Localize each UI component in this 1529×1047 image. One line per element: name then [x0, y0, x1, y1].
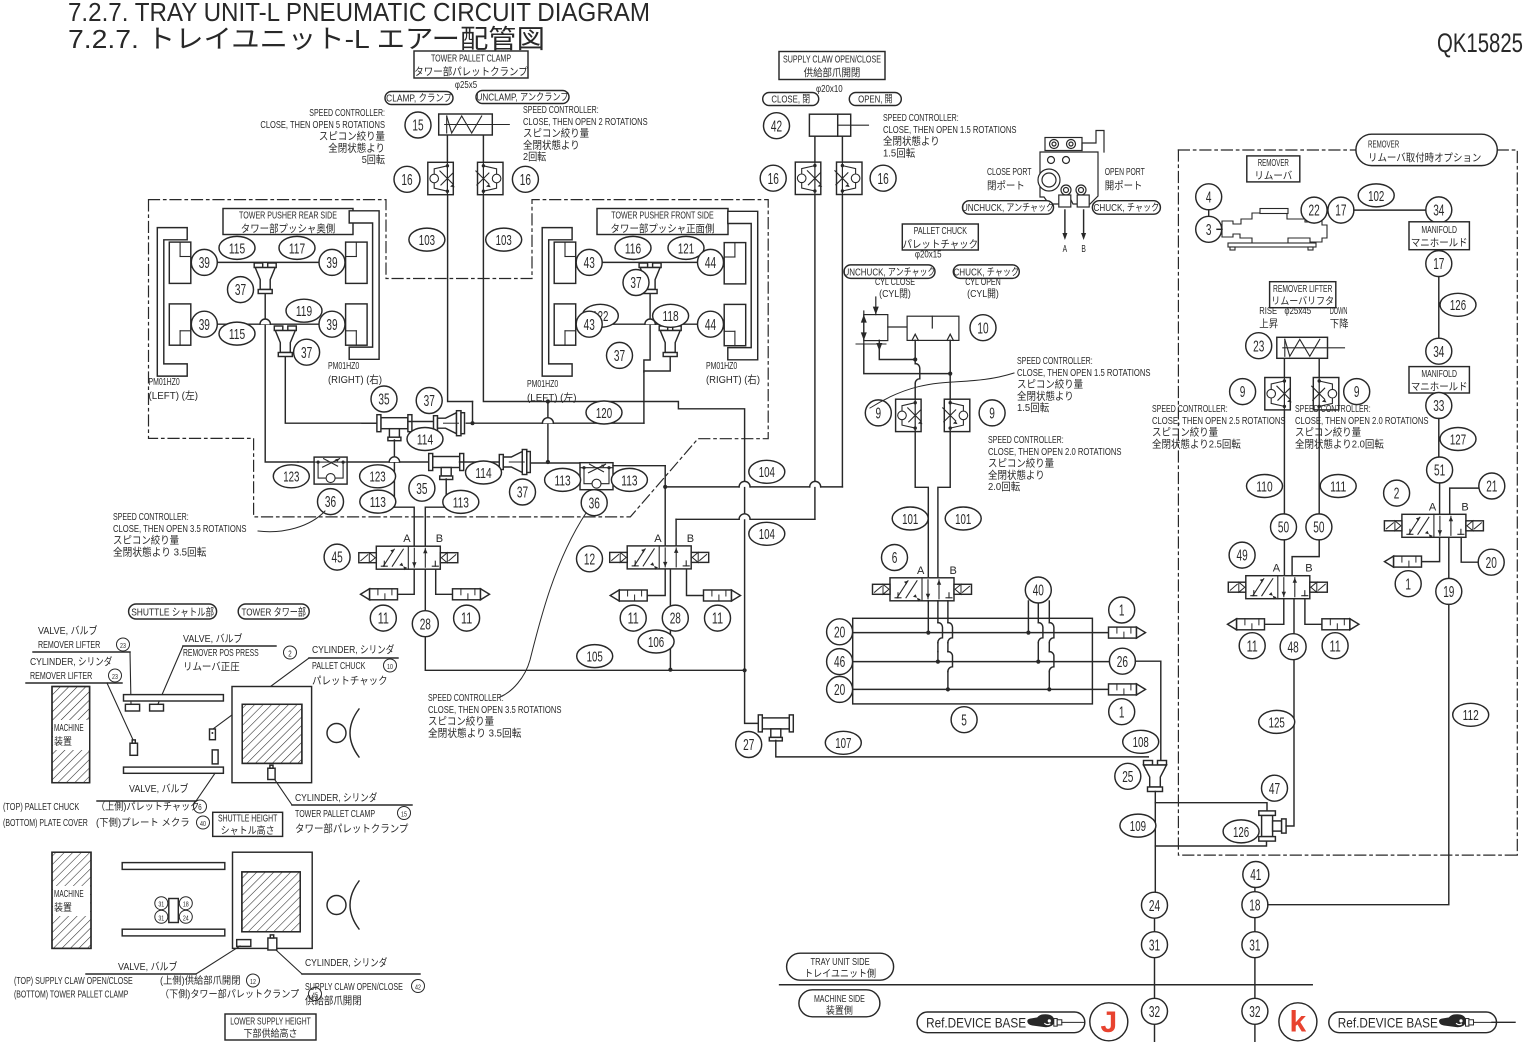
leader 36 left: [258, 511, 325, 532]
svg-text:104: 104: [759, 464, 775, 481]
Y fitting 37 front lower: [659, 326, 668, 331]
wire front lower Y stem: [644, 357, 670, 423]
label stadium TOWER: [238, 604, 309, 619]
wire cross link vertical: [547, 402, 549, 463]
speed controller 9 lifter left: [1265, 378, 1291, 410]
balloon 34 second: [1426, 338, 1452, 364]
svg-text:SPEED CONTROLLER:: SPEED CONTROLLER:: [883, 112, 959, 124]
svg-text:A: A: [654, 533, 662, 545]
balloon 114 upper: [407, 428, 443, 451]
svg-text:18: 18: [1249, 897, 1260, 914]
balloon 116: [615, 236, 651, 259]
balloon 123 right: [360, 465, 396, 488]
svg-text:TOWER PUSHER FRONT SIDE: TOWER PUSHER FRONT SIDE: [611, 210, 713, 222]
balloon 47: [1262, 775, 1288, 801]
balloon 1 valve2: [1395, 571, 1421, 597]
label box LOWER SUPPLY HEIGHT: [225, 1014, 316, 1040]
label box TOWER PUSHER FRONT SIDE: [597, 209, 728, 235]
speed controller 16 left: [428, 162, 454, 194]
svg-text:23: 23: [120, 643, 126, 650]
svg-text:9: 9: [989, 405, 995, 422]
balloon 115 top: [219, 236, 255, 259]
svg-text:32: 32: [1149, 1004, 1160, 1021]
svg-text:2回転: 2回転: [523, 151, 547, 163]
svg-text:(BOTTOM) PLATE COVER: (BOTTOM) PLATE COVER: [3, 818, 88, 829]
Y fitting 37 front upper: [639, 263, 648, 268]
svg-text:112: 112: [1463, 707, 1479, 724]
balloon 2: [1384, 480, 1410, 506]
svg-text:114: 114: [417, 431, 433, 448]
separator line tray/machine: [780, 984, 1313, 986]
balloon 21: [1479, 473, 1505, 499]
svg-text:REMOVER POS PRESS: REMOVER POS PRESS: [183, 647, 259, 659]
port arrow B: [1083, 210, 1085, 235]
svg-text:リムーバ: リムーバ: [1254, 170, 1292, 182]
svg-text:全閉状態より 3.5回転: 全閉状態より 3.5回転: [428, 726, 522, 739]
balloon 3: [1196, 216, 1222, 242]
svg-text:SPEED CONTROLLER:: SPEED CONTROLLER:: [1152, 403, 1228, 415]
svg-text:48: 48: [1288, 639, 1299, 656]
svg-text:全閉状態より: 全閉状態より: [328, 141, 385, 154]
svg-text:4: 4: [1206, 189, 1212, 206]
svg-text:9: 9: [1354, 384, 1360, 401]
svg-text:5: 5: [961, 712, 967, 729]
balloon 11 12-right: [705, 605, 731, 631]
svg-text:UNCLAMP, アンクランプ: UNCLAMP, アンクランプ: [476, 92, 568, 104]
svg-text:TOWER PALLET CLAMP: TOWER PALLET CLAMP: [431, 53, 511, 65]
balloon 120: [586, 401, 622, 424]
balloon 31 left: [1142, 932, 1168, 958]
svg-text:UNCHUCK, アンチャック: UNCHUCK, アンチャック: [962, 202, 1054, 214]
svg-text:装置側: 装置側: [826, 1004, 853, 1017]
wire 107: [776, 741, 1149, 757]
svg-text:k: k: [1290, 1006, 1307, 1039]
balloon 20 row3: [827, 676, 853, 702]
balloon 107: [825, 731, 861, 754]
svg-text:108: 108: [1133, 734, 1149, 751]
balloon 49: [1229, 542, 1255, 568]
svg-text:B: B: [1461, 501, 1468, 513]
wire pallet chuck A line: [914, 340, 916, 363]
svg-text:17: 17: [1433, 256, 1444, 273]
svg-text:全閉状態より2.5回転: 全閉状態より2.5回転: [1152, 437, 1241, 450]
label box REMOVER LIFTER: [1270, 282, 1336, 308]
cylinder assembly PM01HZ0 right rear: [349, 211, 379, 359]
balloon 101 left: [892, 507, 928, 530]
svg-text:REMOVER LIFTER: REMOVER LIFTER: [1273, 284, 1332, 295]
label box MANIFOLD second: [1409, 367, 1469, 393]
svg-text:11: 11: [712, 611, 723, 628]
svg-text:37: 37: [235, 282, 246, 299]
svg-text:CYLINDER, シリンダ: CYLINDER, シリンダ: [305, 956, 388, 969]
speed controller 16 claw right: [837, 162, 863, 194]
svg-text:スピコン絞り量: スピコン絞り量: [319, 130, 386, 143]
svg-text:26: 26: [1117, 654, 1128, 671]
balloon 104 first: [749, 460, 785, 483]
svg-text:7.2.7. TRAY UNIT-L PNEUMATIC: 7.2.7. TRAY UNIT-L PNEUMATIC CIRCUIT DIA…: [68, 0, 650, 27]
svg-text:34: 34: [1433, 344, 1444, 361]
svg-text:CLOSE, THEN OPEN 1.5 ROTATIONS: CLOSE, THEN OPEN 1.5 ROTATIONS: [883, 124, 1017, 136]
valve 10 main block: [907, 316, 959, 340]
valve 10 pilot block: [856, 297, 907, 351]
svg-text:10: 10: [387, 664, 393, 671]
state label CHUCK cyl: [953, 265, 1019, 279]
balloon 115 bottom: [219, 322, 255, 345]
wire 24 column: [1154, 918, 1156, 932]
shuttle rail upper bottom bar: [124, 767, 224, 773]
svg-text:123: 123: [370, 469, 386, 486]
svg-text:CLOSE PORT: CLOSE PORT: [987, 166, 1032, 178]
svg-text:VALVE, バルブ: VALVE, バルブ: [118, 960, 178, 973]
balloon 40: [1025, 577, 1051, 603]
svg-text:51: 51: [1434, 463, 1445, 480]
balloon 50 left: [1271, 514, 1297, 540]
svg-text:31: 31: [1149, 937, 1160, 954]
svg-text:3: 3: [1206, 222, 1212, 239]
svg-text:全閉状態より 3.5回転: 全閉状態より 3.5回転: [113, 545, 207, 558]
wire pallet chuck B line: [949, 340, 951, 399]
svg-text:1: 1: [1119, 704, 1125, 721]
svg-text:OPEN, 開: OPEN, 開: [858, 94, 892, 106]
balloon 16 claw right: [870, 165, 896, 191]
svg-text:シャトル高さ: シャトル高さ: [221, 824, 275, 837]
silencer valve 12 left: [619, 590, 647, 601]
svg-text:120: 120: [596, 405, 612, 422]
svg-text:全閉状態より: 全閉状態より: [523, 138, 580, 151]
balloon 39 rear LT: [191, 249, 217, 275]
svg-text:110: 110: [1256, 478, 1272, 495]
wire 104 riser right: [841, 194, 843, 487]
svg-text:126: 126: [1233, 824, 1249, 841]
svg-text:(上側)供給部爪開閉: (上側)供給部爪開閉: [160, 974, 241, 987]
balloon 118: [653, 304, 689, 327]
wire long distribution upper: [466, 422, 644, 424]
svg-text:40: 40: [1033, 583, 1044, 600]
svg-text:24: 24: [183, 915, 189, 922]
silencer valve 45 right: [453, 589, 481, 600]
svg-text:CLOSE, THEN OPEN 1.5 ROTATIONS: CLOSE, THEN OPEN 1.5 ROTATIONS: [1017, 367, 1151, 379]
silencer 49 right: [1322, 619, 1350, 630]
shuttle rail upper top bar: [124, 695, 224, 701]
svg-text:SPEED CONTROLLER:: SPEED CONTROLLER:: [113, 511, 189, 523]
balloon 23: [1246, 333, 1272, 359]
balloon 127: [1440, 428, 1476, 451]
svg-text:Ref.DEVICE BASE: Ref.DEVICE BASE: [1338, 1015, 1438, 1031]
wire valve 45 A: [413, 545, 415, 547]
wire 51 to valve 2: [1439, 483, 1441, 514]
balloon 9 chuck right: [979, 400, 1005, 426]
svg-text:16: 16: [878, 171, 889, 188]
balloon 20 row1: [827, 619, 853, 645]
svg-text:107: 107: [835, 735, 851, 752]
label box SHUTTLE HEIGHT: [213, 812, 283, 836]
svg-text:REMOVER LIFTER: REMOVER LIFTER: [38, 639, 101, 651]
svg-text:SUPPLY CLAW OPEN/CLOSE: SUPPLY CLAW OPEN/CLOSE: [783, 54, 881, 66]
speed controller 16 claw left: [795, 162, 821, 194]
valve remover pos press block: [150, 704, 164, 711]
svg-text:18: 18: [183, 902, 189, 909]
svg-text:MANIFOLD: MANIFOLD: [1421, 368, 1457, 380]
balloon 103 right: [486, 228, 522, 251]
port arrow A: [1064, 210, 1066, 235]
balloon 48: [1280, 634, 1306, 660]
svg-text:50: 50: [1313, 519, 1324, 536]
svg-text:45: 45: [312, 993, 318, 1000]
svg-text:16: 16: [520, 172, 531, 189]
balloon 28 12: [662, 605, 688, 631]
speed controller 16 right: [478, 162, 504, 194]
balloon 11 45-right: [454, 605, 480, 631]
svg-text:37: 37: [614, 348, 625, 365]
wire 40 stubs: [1027, 601, 1029, 633]
svg-text:LOWER SUPPLY HEIGHT: LOWER SUPPLY HEIGHT: [230, 1016, 311, 1027]
svg-text:CYL OPEN: CYL OPEN: [965, 276, 1001, 288]
wire rear bottom rods: [204, 323, 333, 325]
balloon 32 left: [1142, 998, 1168, 1024]
label Ref.DEVICE BASE k: [1329, 1012, 1497, 1033]
balloon 36 right: [581, 490, 607, 516]
svg-text:(TOP) SUPPLY CLAW OPEN/CLOSE: (TOP) SUPPLY CLAW OPEN/CLOSE: [14, 976, 133, 987]
svg-text:下降: 下降: [1330, 317, 1349, 330]
svg-text:スピコン絞り量: スピコン絞り量: [988, 457, 1055, 470]
balloon 18: [1242, 892, 1268, 918]
svg-text:全閉状態より2.0回転: 全閉状態より2.0回転: [1295, 437, 1384, 450]
silencer bus top: [1109, 627, 1137, 638]
svg-text:リムーバ取付時オプション: リムーバ取付時オプション: [1368, 151, 1481, 164]
cylinder assembly PM01HZ0 left front: [542, 228, 572, 377]
svg-text:φ25x45: φ25x45: [1284, 305, 1311, 317]
svg-text:PALLET CHUCK: PALLET CHUCK: [312, 660, 365, 672]
wire Y mid lower to ctrl 113: [531, 462, 581, 464]
svg-text:121: 121: [678, 240, 694, 257]
tee fitting upper: [362, 422, 381, 424]
svg-text:109: 109: [1130, 818, 1146, 835]
balloon 113 ctrl right: [611, 468, 647, 491]
svg-text:φ20x15: φ20x15: [915, 249, 942, 261]
speed controller 9 chuck right: [944, 399, 970, 431]
balloon 25: [1115, 763, 1141, 789]
wire ctrl113 to valve 12 A: [613, 465, 665, 467]
balloon 9 lifter left: [1230, 379, 1256, 405]
svg-text:PALLET CHUCK: PALLET CHUCK: [914, 225, 967, 237]
svg-text:31: 31: [158, 915, 164, 922]
svg-text:スピコン絞り量: スピコン絞り量: [1295, 426, 1362, 439]
balloon 16 claw left: [760, 165, 786, 191]
svg-text:B: B: [1305, 563, 1312, 575]
balloon 113 ctrl left: [545, 468, 581, 491]
svg-text:PM01HZ0: PM01HZ0: [328, 360, 359, 372]
svg-text:116: 116: [625, 240, 641, 257]
wire supply claw cylinder ports: [814, 136, 816, 163]
svg-text:32: 32: [1249, 1004, 1260, 1021]
balloon 51: [1427, 457, 1453, 483]
balloon 112: [1453, 703, 1489, 726]
wire valve 12 exhaust right: [687, 569, 704, 595]
wire valve 12 P down: [669, 569, 671, 669]
svg-text:39: 39: [326, 317, 337, 334]
label box REMOVER: [1247, 156, 1300, 182]
balloon 122: [582, 304, 618, 327]
speed controller 9 chuck left: [896, 399, 922, 431]
svg-text:27: 27: [743, 737, 754, 754]
svg-text:（下側)タワー部パレットクランプ: （下側)タワー部パレットクランプ: [160, 988, 299, 1001]
wire lifter A down: [1283, 410, 1285, 576]
svg-text:118: 118: [663, 308, 679, 325]
svg-text:全閉状態より: 全閉状態より: [988, 468, 1045, 481]
wire 18 to 112 line: [1268, 536, 1449, 905]
balloon 39 rear RB: [319, 311, 345, 337]
wire 127 line: [1438, 419, 1440, 458]
svg-text:15: 15: [401, 812, 407, 819]
label Ref.DEVICE BASE J: [917, 1012, 1085, 1033]
svg-text:113: 113: [370, 494, 386, 511]
bus row 20 top: [853, 632, 1109, 634]
svg-text:105: 105: [587, 649, 603, 666]
balloon 37 rear lower: [294, 339, 320, 365]
svg-text:126: 126: [1450, 297, 1466, 314]
svg-text:5回転: 5回転: [362, 154, 386, 166]
balloon 32 right: [1242, 998, 1268, 1024]
svg-text:113: 113: [621, 472, 637, 489]
svg-text:28: 28: [420, 616, 431, 633]
svg-text:A: A: [1063, 243, 1068, 255]
balloon 37 upper Y mid: [416, 388, 442, 414]
bus row 46: [853, 661, 1116, 663]
valve block mid: [212, 750, 218, 764]
svg-text:1.5回転: 1.5回転: [1017, 402, 1050, 414]
wire valve 45 P down: [425, 569, 744, 670]
balloon 33: [1426, 393, 1452, 419]
svg-text:24: 24: [1149, 898, 1160, 915]
svg-text:20: 20: [834, 624, 845, 641]
balloon 119: [286, 299, 322, 322]
wire 102: [1354, 209, 1426, 211]
wire 104 riser left: [814, 194, 816, 520]
wire front top rods: [589, 261, 711, 263]
svg-text:2.0回転: 2.0回転: [988, 481, 1021, 493]
state label OPEN: [849, 93, 901, 106]
wire valve 12 exhaust left: [648, 569, 665, 595]
svg-text:SPEED CONTROLLER:: SPEED CONTROLLER:: [988, 434, 1064, 446]
svg-text:102: 102: [1368, 188, 1384, 205]
svg-text:スピコン絞り量: スピコン絞り量: [1152, 426, 1219, 439]
balloon 17 right of 22: [1328, 197, 1354, 223]
svg-text:REMOVER LIFTER: REMOVER LIFTER: [30, 670, 93, 682]
wire valve 49 exhaust right: [1305, 599, 1322, 625]
balloon 35 mid: [409, 475, 435, 501]
balloon 113 mid-left: [360, 490, 396, 513]
svg-text:J: J: [1100, 1006, 1117, 1039]
svg-text:103: 103: [496, 232, 512, 249]
svg-text:11: 11: [628, 611, 639, 628]
svg-text:A: A: [1429, 501, 1437, 513]
cylinder remover lifter small: [130, 743, 138, 755]
speed controller 9 lifter right: [1313, 378, 1339, 410]
balloon 108: [1123, 730, 1159, 753]
balloon 9 lifter right: [1344, 379, 1370, 405]
svg-text:11: 11: [1330, 638, 1341, 655]
svg-text:MANIFOLD: MANIFOLD: [1421, 224, 1457, 236]
svg-text:17: 17: [1335, 203, 1346, 220]
balloon 43 front LB: [576, 311, 602, 337]
svg-text:46: 46: [834, 654, 845, 671]
cylinder assembly PM01HZ0 right front: [728, 211, 758, 359]
balloon 16 right: [512, 166, 538, 192]
svg-text:φ20x10: φ20x10: [816, 83, 843, 95]
svg-text:全閉状態より: 全閉状態より: [1017, 389, 1074, 402]
wire valve 6 outputs to bus: [927, 601, 929, 633]
state label CLOSE: [763, 93, 819, 106]
svg-text:101: 101: [955, 511, 971, 528]
balloon 126 line: [1440, 293, 1476, 316]
svg-text:10: 10: [977, 320, 988, 337]
svg-text:35: 35: [378, 392, 389, 409]
balloon 44 front RB: [698, 311, 724, 337]
balloon 50 right: [1306, 514, 1332, 540]
wire clamp cylinder ports: [446, 135, 448, 162]
svg-text:127: 127: [1450, 431, 1466, 448]
wire 109 loop: [1155, 803, 1267, 811]
svg-text:(LEFT) (左): (LEFT) (左): [149, 389, 199, 402]
svg-text:42: 42: [771, 118, 782, 135]
state label UNCHUCK top: [963, 201, 1054, 215]
wire rear lower Y stem: [285, 357, 380, 423]
svg-text:PM01HZ0: PM01HZ0: [527, 378, 558, 390]
Y fitting 37 rear lower: [274, 326, 283, 331]
svg-text:SPEED CONTROLLER:: SPEED CONTROLLER:: [1017, 355, 1093, 367]
balloon 106: [638, 630, 674, 653]
state label CHUCK top: [1092, 201, 1160, 215]
balloon 11 49-right: [1322, 633, 1348, 659]
balloon 41: [1243, 862, 1269, 888]
svg-text:125: 125: [1269, 714, 1285, 731]
svg-text:DOWN: DOWN: [1330, 305, 1348, 317]
svg-text:34: 34: [1433, 202, 1444, 219]
svg-text:28: 28: [670, 611, 681, 628]
balloon 121: [668, 236, 704, 259]
svg-text:9: 9: [1240, 384, 1246, 401]
balloon 34 top: [1426, 197, 1452, 223]
svg-text:A: A: [917, 565, 925, 577]
svg-text:23: 23: [1253, 338, 1264, 355]
Y fitting 25: [1144, 761, 1153, 766]
Y fitting mid upper: [408, 421, 437, 423]
svg-text:37: 37: [517, 485, 528, 502]
balloon 109: [1120, 814, 1156, 837]
dash-dot border tower pusher group: [149, 200, 769, 517]
wire 26 to Y fitting: [1135, 661, 1160, 762]
svg-text:50: 50: [1278, 519, 1289, 536]
svg-text:39: 39: [326, 255, 337, 272]
svg-text:装置: 装置: [54, 901, 72, 914]
svg-text:2: 2: [288, 650, 292, 659]
balloon 125: [1259, 710, 1295, 733]
svg-text:11: 11: [461, 611, 472, 628]
svg-text:SPEED CONTROLLER:: SPEED CONTROLLER:: [523, 104, 599, 116]
dash-dot border remover option: [1178, 149, 1356, 151]
svg-text:CLOSE, THEN OPEN 5 ROTATIONS: CLOSE, THEN OPEN 5 ROTATIONS: [260, 119, 385, 131]
bus rectangle 5: [853, 618, 1093, 704]
svg-text:31: 31: [1249, 937, 1260, 954]
svg-text:MACHINE: MACHINE: [54, 889, 84, 900]
cylinder tower pallet clamp small: [268, 768, 275, 779]
shuttle rail lower bottom bar: [122, 929, 225, 936]
balloon 27: [736, 732, 762, 758]
balloon 123 left: [273, 465, 309, 488]
remover mechanism drawing: [1222, 209, 1327, 251]
balloon 35 upper tee: [371, 386, 397, 412]
svg-text:(BOTTOM) TOWER PALLET CLAMP: (BOTTOM) TOWER PALLET CLAMP: [14, 990, 129, 1001]
